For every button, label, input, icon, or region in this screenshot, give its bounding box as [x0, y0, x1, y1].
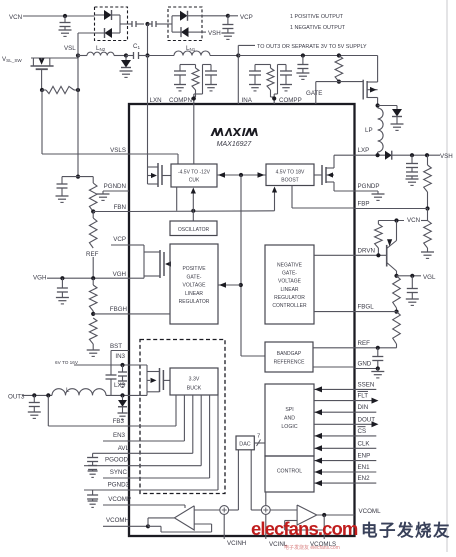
pin stub EN2 [355, 475, 377, 483]
wire box1 output [120, 23, 132, 25]
block CUK regulator [171, 164, 217, 187]
resistor R13 (FBGH bottom) [89, 318, 97, 350]
label VCP (top) [240, 14, 253, 21]
wire OSC to CUK arrow [191, 188, 196, 211]
junction dot FBP [425, 206, 429, 210]
resistor R1 (VSL sense) [42, 86, 78, 93]
svg-text:TO OUT3 OR SEPARATE 3V TO 5V S: TO OUT3 OR SEPARATE 3V TO 5V SUPPLY [257, 44, 367, 50]
junction dot gate node [337, 80, 341, 84]
wire internal vertical bus [241, 175, 265, 356]
wire COMPN internal [193, 104, 195, 164]
label FB3 [113, 418, 125, 425]
svg-text:VGH: VGH [33, 274, 46, 281]
block 3.3V BUCK [170, 368, 218, 395]
wire VCOMP pin [103, 504, 129, 506]
label GATE [306, 90, 322, 97]
block NEGATIVE GVR [265, 245, 314, 324]
wire GND internal [313, 366, 355, 368]
ground for R13 [87, 350, 100, 356]
svg-text:REGULATOR: REGULATOR [179, 299, 210, 305]
label VSH (right) [440, 153, 453, 160]
svg-text:LP: LP [365, 127, 373, 134]
pin stub DIN [355, 404, 377, 412]
resistor R5 (VSH divider bottom) [424, 221, 432, 253]
svg-text:VOLTAGE: VOLTAGE [183, 283, 207, 289]
diode D6 (LP clamp) [392, 109, 402, 117]
wire PGOOD pin [84, 465, 129, 467]
wire coupling node down to C1 rail [145, 24, 149, 58]
svg-text:VGL: VGL [423, 274, 436, 281]
svg-text:SPI: SPI [285, 407, 293, 413]
diode D5 (to ground) [120, 56, 133, 78]
wire DRVN pin [355, 254, 387, 256]
label INA [242, 97, 253, 104]
svg-text:REF: REF [358, 340, 371, 347]
diode D2 (bottom, box1) [95, 28, 121, 38]
scan border artifact line [446, 0, 448, 552]
wire D4 to VSH label [202, 31, 206, 33]
capacitor C3 (coupling) [132, 21, 144, 27]
svg-text:VGH: VGH [113, 271, 126, 278]
svg-text:FLT: FLT [358, 393, 369, 400]
junction dot rail resistor [337, 53, 341, 57]
wire FB3 [48, 395, 129, 426]
diode D3 (top, box2) [172, 11, 202, 21]
resistor R3 (gate pullup) [335, 56, 343, 82]
junction dot VGL cap [410, 274, 414, 278]
note 1 negative output [290, 25, 346, 31]
text BUCK line2 [187, 386, 202, 392]
wire FBN internal [129, 210, 275, 213]
wire VSL_SW to FET [31, 56, 78, 59]
pin stub EN1 [355, 464, 377, 472]
label bus width 7 [257, 434, 260, 440]
svg-text:FBP: FBP [358, 201, 370, 208]
wire VGH internal [129, 276, 160, 278]
junction dot VSL [76, 53, 80, 57]
svg-text:LX3: LX3 [114, 382, 126, 389]
diode D4 (bottom, box2) [172, 27, 202, 37]
wire VGH [47, 277, 129, 279]
label LXN [150, 97, 162, 104]
svg-text:VOLTAGE: VOLTAGE [278, 279, 302, 285]
label REF (left) [86, 251, 99, 258]
diode D1 (top, box1) [95, 10, 121, 20]
wire LX3 pin [106, 394, 129, 396]
transistor Q1 (VSL_SW PMOS) [31, 58, 54, 90]
wire CS internal [314, 433, 355, 439]
charge pump dashed box 1 [95, 7, 128, 41]
wire C1 left [126, 55, 134, 57]
wire U1 feedback [148, 524, 212, 532]
wire FBP to VCN row [427, 209, 429, 221]
wire EN3 pin [103, 440, 129, 442]
capacitor C10 (VGL) [407, 276, 418, 299]
svg-text:BANDGAP: BANDGAP [277, 351, 302, 357]
junction dot VCN [394, 218, 398, 222]
wire FBGL internal [314, 311, 355, 313]
junction dot DRVN [376, 253, 380, 257]
label IN3 [115, 353, 125, 360]
resistor R4 (VSH divider top) [424, 155, 432, 208]
wire EN1 internal [314, 469, 355, 475]
wire VCOMH internal [129, 525, 148, 527]
label OUT3 [8, 393, 25, 400]
junction dot COMPP [272, 96, 276, 100]
IC MAX16927 outline [129, 104, 355, 536]
transistor Q4 (cuk internal FET) [148, 104, 172, 187]
capacitor C17 (AVL) [87, 453, 98, 471]
wire BST to bootstrap cap [111, 351, 129, 375]
wire VCP pin stub [111, 244, 129, 246]
label VGH (pin) [113, 271, 126, 278]
text OSCILLATOR [178, 227, 210, 233]
wire rail to FET drain [238, 56, 377, 83]
svg-text:COMPN: COMPN [169, 97, 192, 104]
block POSITIVE GVR [170, 244, 218, 324]
text CONTROL [277, 469, 302, 475]
label FBGH [110, 306, 127, 313]
transistor Q2 (external NMOS) [363, 80, 377, 100]
svg-text:MAX16927: MAX16927 [217, 141, 253, 148]
svg-text:DRVN: DRVN [358, 247, 375, 254]
ground for C2 [59, 30, 72, 36]
svg-text:CS: CS [358, 428, 367, 435]
watermark chinese [361, 520, 451, 540]
label EN3 [113, 432, 126, 439]
wire VGL node [397, 275, 422, 277]
compensation network COMPP [249, 65, 292, 105]
svg-text:LXN: LXN [150, 97, 162, 104]
svg-text:AVL: AVL [118, 445, 130, 452]
inductor L (buck) [52, 389, 106, 396]
ground for C5 [221, 33, 234, 39]
svg-text:VCINH: VCINH [227, 540, 246, 547]
svg-text:SSEN: SSEN [358, 381, 375, 388]
svg-text:EN1: EN1 [358, 464, 371, 471]
wire VCOMH pin [103, 525, 129, 527]
wire U1 output [148, 518, 174, 526]
wire LP to LXP [377, 152, 379, 155]
Maxim logo [211, 128, 258, 136]
junction dot GND [376, 366, 380, 370]
svg-text:GATE-: GATE- [187, 274, 202, 280]
label C1 [133, 43, 140, 50]
ground for R5 [421, 252, 434, 258]
svg-text:VSH: VSH [208, 30, 221, 37]
label GND [358, 361, 372, 368]
label AVL [118, 445, 130, 452]
text pos-gvr REGULATOR [179, 299, 210, 305]
svg-text:电子发烧友 elecfans.com: 电子发烧友 elecfans.com [284, 544, 340, 551]
svg-text:EN2: EN2 [358, 475, 371, 482]
junction dot R1 right [76, 88, 80, 92]
svg-text:VCN: VCN [9, 14, 22, 21]
svg-text:VCOML: VCOML [359, 508, 382, 515]
label LN2 [96, 45, 106, 52]
wire buck route 2 [129, 395, 184, 441]
pin stub CS [355, 427, 377, 436]
label VCINH [227, 540, 246, 547]
wire FBP pin [355, 208, 428, 210]
wire VCN to charge pump [23, 15, 95, 17]
svg-text:SYNC: SYNC [110, 469, 128, 476]
label VCOMH [106, 517, 129, 524]
wire EN2 internal [314, 480, 355, 486]
pin stub SSEN [355, 381, 377, 389]
svg-text:6V TO 16V: 6V TO 16V [55, 360, 79, 365]
capacitor C13 (VGH) [57, 278, 68, 297]
label VSH (top) [208, 30, 221, 37]
wire U2 output [317, 514, 355, 516]
ground for D8 [118, 413, 128, 419]
wire GATE pin [316, 82, 363, 104]
pin stub ENP [355, 453, 377, 461]
label VCN (top left) [9, 14, 22, 21]
block BOOST [266, 164, 314, 186]
svg-text:LXP: LXP [358, 147, 370, 154]
ground for C16 [28, 412, 41, 418]
transistor Q3 (PNP) [387, 221, 397, 276]
junction dot INA rail [236, 53, 240, 57]
junction dot VCP node [226, 14, 230, 18]
svg-text:PGNDN: PGNDN [104, 183, 126, 190]
junction dot OUT3 cap [32, 393, 36, 397]
svg-text:PGND3: PGND3 [108, 482, 130, 489]
text SPI [285, 407, 293, 413]
wire FBGH internal [129, 313, 170, 315]
svg-text:4.5V TO 18V: 4.5V TO 18V [276, 170, 305, 176]
junction dot OUT3 FB3 [46, 393, 50, 397]
svg-text:VSH: VSH [440, 153, 453, 160]
wire VSL filter branch [62, 177, 93, 184]
wire DOUT internal [314, 423, 355, 425]
svg-text:VSL: VSL [64, 45, 76, 52]
inductor LN2 [78, 52, 126, 55]
label VCOML [359, 508, 382, 515]
svg-text:VCN: VCN [407, 217, 420, 224]
label FBN [114, 204, 126, 211]
text BOOST line2 [281, 178, 299, 184]
svg-text:GND: GND [358, 361, 372, 368]
wire buck route 6 [129, 395, 218, 490]
wire LXN down [147, 56, 149, 105]
wire SYNC pin [103, 477, 129, 479]
watermark elecfans.com [251, 518, 358, 539]
junction dot U2 out [322, 513, 326, 517]
junction dot FBGH [91, 312, 95, 316]
svg-text:3.3V: 3.3V [189, 377, 200, 383]
wire LDO arrow [218, 282, 241, 288]
svg-text:LINEAR: LINEAR [185, 291, 203, 297]
junction dot LN2-C1 [124, 53, 128, 57]
note TO OUT3 OR SEPARATE 3V TO 5V SUPPLY [257, 44, 367, 50]
resistor R8 (VGL divider top) [393, 276, 401, 312]
label LN1 [186, 45, 196, 52]
resistor R9 (VGL divider bottom) [378, 312, 401, 348]
resistor R10 (FBN top) [89, 183, 97, 212]
wire VCN node [378, 220, 427, 222]
svg-text:REF: REF [86, 251, 99, 258]
wire DAC bus [254, 440, 265, 447]
resistor R12 (FBGH top) [89, 278, 97, 314]
wire LX3 internal [129, 392, 147, 396]
wire FBP internal [292, 186, 355, 209]
text CUK line2 [189, 178, 200, 184]
wire VCP internal [129, 245, 160, 252]
block BANDGAP [265, 342, 313, 372]
ground for C13 [56, 298, 69, 304]
wire REF pin [355, 347, 378, 349]
junction dot VSL filter [76, 175, 80, 179]
junction dot VSH cap [410, 153, 414, 157]
wire OUT3 [22, 394, 52, 396]
svg-text:AND: AND [284, 416, 295, 422]
ground for D6 [391, 124, 404, 130]
junction dot LXP-LP [376, 153, 380, 157]
svg-text:REFERENCE: REFERENCE [274, 360, 306, 366]
wire D3 to VCP node [202, 15, 228, 17]
wire VCOMP internal [129, 505, 185, 508]
junction dot VSH res [425, 153, 429, 157]
junction dot VCN cap [63, 14, 67, 18]
wire buck route 3 [129, 395, 193, 453]
label L [66, 387, 70, 394]
wire IN3 pin [74, 364, 129, 366]
wire PGNDN pin [103, 190, 129, 192]
svg-text:PGOOD: PGOOD [105, 457, 129, 464]
label VCINL [269, 541, 288, 548]
wire VSLS pin [129, 153, 178, 155]
junction dot LX3 diode [120, 393, 124, 397]
label COMPN [169, 97, 192, 104]
wire BOOST bottom arrow [272, 187, 277, 211]
wire U1 plus input [194, 509, 220, 511]
wire box1 right join [119, 15, 121, 33]
svg-text:COMPP: COMPP [279, 97, 302, 104]
svg-text:GATE-: GATE- [282, 271, 297, 277]
junction dot VGH divider [91, 276, 95, 280]
op-amp U1 (VCOM buffer) [174, 506, 194, 530]
wire PGNDP pin [355, 190, 379, 192]
wire box2 input join [168, 16, 172, 32]
ground for C10 [406, 299, 419, 305]
svg-text:BUCK: BUCK [187, 386, 202, 392]
junction dot VGL node [394, 274, 398, 278]
diode D8 (buck catch) [118, 395, 127, 413]
ground for PGNDP [372, 191, 385, 200]
wire CLK internal [314, 445, 355, 451]
junction dot rail cap [301, 53, 305, 57]
svg-text:-4.5V TO -12V: -4.5V TO -12V [178, 170, 211, 176]
svg-text:elecfans.com: elecfans.com [251, 518, 358, 539]
wire REF to VGH [92, 257, 94, 278]
pin stub DOUT [355, 416, 379, 427]
label FBP [358, 201, 370, 208]
summing node S2 [261, 506, 270, 515]
ground for C17 [88, 471, 98, 477]
svg-text:IN3: IN3 [115, 353, 125, 360]
text neg-gvr NEGATIVE [277, 263, 303, 269]
svg-text:LINEAR: LINEAR [280, 287, 298, 293]
wire REF internal [313, 347, 355, 349]
ground for C15 [118, 381, 127, 387]
label VCN (right) [407, 217, 420, 224]
wire buck route 4 [129, 395, 201, 466]
text pos-gvr VOLTAGE [183, 283, 207, 289]
svg-text:电子发烧友: 电子发烧友 [361, 520, 451, 540]
block SPI AND LOGIC [265, 384, 314, 456]
label PGOOD [105, 457, 129, 464]
compensation network COMPN [174, 65, 217, 105]
capacitor C18 (PGND3) [87, 490, 98, 501]
IC part number MAX16927 [217, 141, 253, 148]
svg-text:CONTROL: CONTROL [277, 469, 302, 475]
text BOOST line1 [276, 170, 305, 176]
svg-text:BOOST: BOOST [281, 178, 299, 184]
capacitor C11 (REF) [372, 348, 383, 369]
svg-text:DIN: DIN [358, 404, 369, 411]
pin stub CLK [355, 440, 377, 448]
svg-text:DOUT: DOUT [358, 416, 376, 423]
text BANDGAP line2 [274, 360, 306, 366]
svg-text:VCOMH: VCOMH [106, 517, 129, 524]
wire bottom diode D2 to VSL [78, 32, 95, 34]
transistor Q5 (boost internal FET) [314, 155, 355, 191]
wire to diode D6 [378, 106, 397, 110]
wire DRVN internal [314, 254, 355, 256]
wire SSEN internal [314, 386, 355, 392]
junction dot COMPN [192, 96, 196, 100]
note 1 positive output [290, 14, 344, 20]
capacitor C2 (VCN bypass) [60, 16, 71, 30]
label COMPP [279, 97, 302, 104]
label VCOMLS [310, 541, 336, 548]
capacitor C4 (coupling) [148, 21, 169, 27]
dashed box (3.3V buck section) [140, 340, 225, 494]
label LP [365, 127, 373, 134]
wire AVL pin [93, 452, 129, 454]
ground for PGNDN [97, 191, 110, 200]
label VSL [64, 45, 76, 52]
label VGH (far left) [33, 274, 46, 281]
pin stub FLT [355, 391, 379, 403]
wire buck route 5 [129, 395, 210, 478]
label FBGL [358, 304, 375, 311]
svg-text:EN3: EN3 [113, 432, 126, 439]
wire VCP stub [228, 15, 238, 17]
capacitor C8 (rail bypass) [297, 56, 308, 74]
capacitor C1 (cuk coupling) [134, 52, 148, 59]
wire TO OUT3 stub [238, 45, 255, 55]
label VSL_SW [2, 56, 22, 63]
svg-text:FBGL: FBGL [358, 304, 375, 311]
capacitor C12 (VSL filter) [57, 184, 68, 196]
inductor LN1 [148, 51, 239, 56]
label VCP (pin) [113, 236, 126, 243]
text neg-gvr LINEAR [280, 287, 298, 293]
label DRVN [358, 247, 375, 254]
text DAC [239, 442, 250, 448]
svg-text:DAC: DAC [239, 442, 250, 448]
text LOGIC [281, 424, 297, 430]
svg-text:GATE: GATE [306, 90, 322, 97]
resistor R7 (DRVN base) [375, 221, 383, 256]
junction dot coupling node [145, 22, 149, 26]
svg-text:LOGIC: LOGIC [281, 424, 297, 430]
junction dot REF [376, 346, 380, 350]
label VCOMP [108, 496, 131, 503]
